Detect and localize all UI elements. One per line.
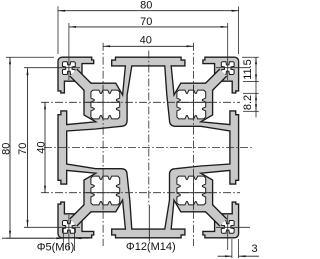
crosshair top-right corner hole (horizontal) (216, 67, 250, 69)
dimension 8.2 (slot opening width, right side) (243, 92, 259, 94)
crosshair across boss hole (102, 85, 104, 119)
crosshair bottom-right corner hole (horizontal) (216, 226, 250, 228)
svg-text:80: 80 (1, 143, 13, 155)
svg-text:8.2: 8.2 (242, 95, 254, 110)
crosshair top-left corner hole (vertical, 70-dim extension) (68, 23, 70, 80)
centreline: left slot axis (vertical, 40-dim extension) (102, 43, 104, 246)
dimension 70 (left hole spacing) (27, 68, 29, 227)
crosshair across boss hole (193, 85, 195, 119)
dimension 3 (wall thickness) (231, 239, 233, 258)
svg-text:70: 70 (140, 16, 152, 28)
centreline: main horizontal axis (44, 147, 254, 149)
crosshair top-left corner hole (horizontal) (24, 67, 80, 69)
crosshair bottom-left corner hole (vertical) (68, 215, 70, 250)
crosshair across boss hole (193, 176, 195, 210)
svg-text:70: 70 (17, 143, 29, 155)
crosshair top-right corner hole (vertical) (227, 23, 229, 80)
leader line to phi12 label (148, 205, 150, 242)
centreline: right slot axis (vertical) (193, 43, 195, 246)
profile body: 80x80 aluminium extrusion cross-section with T-slots, corner holes and centre bores (58, 57, 239, 238)
svg-text:Φ5(M6): Φ5(M6) (37, 242, 75, 254)
svg-text:11.5: 11.5 (242, 59, 254, 80)
crosshair bottom-left corner hole (horizontal) (24, 226, 80, 228)
centre bore holes phi12(M14) in the four bosses and phi5(M6) corner holes (63, 62, 235, 234)
dimension 80 (top overall width) (58, 10, 239, 12)
dimension 40 (left slot spacing) (44, 102, 46, 192)
crosshair bottom-right corner hole (vertical) (227, 215, 229, 250)
dimension 40 (top slot spacing) (103, 45, 193, 47)
centreline: main vertical axis (148, 51, 150, 206)
svg-text:80: 80 (140, 0, 152, 12)
corner webs joining corner blocks to centre bosses (70, 69, 227, 226)
svg-text:Φ12(M14): Φ12(M14) (126, 241, 176, 253)
dimension 11.5 (slot depth, right side) (242, 56, 259, 58)
svg-text:40: 40 (35, 141, 47, 153)
centreline: upper slot axis (horizontal) (41, 101, 240, 103)
dimension 70 (top hole spacing) (69, 26, 228, 28)
dimension 80 (left overall height) (9, 57, 11, 238)
dimension phi5(M6) corner hole (62, 229, 64, 251)
crosshair across boss hole (102, 176, 104, 210)
svg-text:40: 40 (140, 35, 152, 47)
centreline: lower slot axis (horizontal) (41, 192, 240, 194)
svg-text:3: 3 (252, 243, 258, 255)
